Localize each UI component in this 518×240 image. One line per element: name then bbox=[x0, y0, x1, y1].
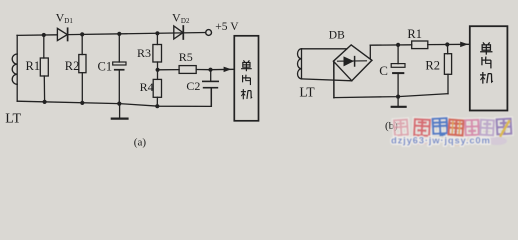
node dot (C top, b) bbox=[396, 43, 400, 47]
glyph 机 (a) bbox=[241, 89, 252, 99]
MCU box (b) bbox=[470, 26, 508, 110]
svg-text:R1: R1 bbox=[407, 27, 422, 41]
resistor R1 bbox=[40, 35, 48, 102]
svg-text:V: V bbox=[172, 10, 181, 24]
svg-text:LT: LT bbox=[5, 111, 21, 126]
glyph 片 (a) bbox=[243, 75, 251, 85]
node dot (R5/C2 junction) bbox=[208, 68, 212, 72]
watermark big char 6 bbox=[480, 120, 494, 136]
svg-text:DB: DB bbox=[329, 30, 345, 42]
node dot (R3/R4/R5 junction) bbox=[156, 68, 160, 72]
svg-text:C1: C1 bbox=[98, 59, 113, 73]
MCU text glyphs (b): 单片机 drawn bbox=[480, 42, 493, 83]
node dot A1 (R1 top) bbox=[42, 33, 46, 37]
resistor R5 bbox=[158, 66, 211, 74]
node dot (C bottom / ground, b) bbox=[396, 95, 400, 99]
svg-text:C: C bbox=[379, 63, 388, 78]
watermark big char 4 (red) bbox=[449, 120, 464, 136]
left wire bbox=[16, 35, 18, 101]
glyph 单 (a) bbox=[241, 60, 252, 71]
watermark big char 1 bbox=[394, 120, 408, 136]
bottom rail bbox=[17, 88, 211, 106]
resistor R3 bbox=[153, 33, 162, 70]
svg-text:C2: C2 bbox=[186, 79, 200, 93]
svg-text:V: V bbox=[56, 10, 65, 24]
svg-text:LT: LT bbox=[299, 85, 315, 100]
node dot (C1 top) bbox=[117, 32, 121, 36]
watermark halo backdrop bbox=[394, 118, 511, 136]
bridge rectifier DB diamond bbox=[333, 45, 372, 81]
watermark big char 5 bbox=[465, 120, 479, 135]
node dot (R2 bottom) bbox=[80, 101, 84, 105]
top rail bbox=[17, 34, 57, 37]
node dot (R1 bottom) bbox=[43, 100, 47, 104]
svg-text:R3: R3 bbox=[137, 46, 151, 60]
wire bridge right vertex to top rail (b) bbox=[370, 45, 372, 60]
node dot (C1 bottom) bbox=[117, 102, 121, 106]
+5V terminal circle bbox=[206, 30, 212, 36]
capacitor C2 bbox=[202, 70, 219, 107]
wire bridge left vertex down to ground rail bbox=[333, 61, 335, 97]
svg-text:R4: R4 bbox=[140, 80, 154, 94]
wire with arrow into MCU (a) bbox=[211, 67, 235, 73]
resistor R1 (b) bbox=[412, 41, 428, 49]
svg-text:+5 V: +5 V bbox=[215, 21, 239, 33]
coil LT (b) bottom line bbox=[302, 79, 352, 81]
capacitor C (b) bbox=[391, 45, 405, 97]
svg-text:R2: R2 bbox=[65, 59, 80, 73]
coil LT (b) top line bbox=[302, 48, 347, 50]
top rail (b) bbox=[370, 43, 469, 46]
watermark big char 7 bbox=[497, 119, 512, 137]
svg-text:D2: D2 bbox=[181, 17, 190, 25]
bottom rail (b) bbox=[334, 94, 448, 98]
bridge inner diode bbox=[338, 56, 367, 66]
svg-text:R1: R1 bbox=[26, 59, 41, 73]
resistor R4 bbox=[153, 70, 161, 106]
inductor LT coil arcs bbox=[12, 54, 17, 84]
paper background bbox=[0, 0, 518, 148]
glyph 片 (b) bbox=[482, 57, 491, 69]
ground (a) bbox=[112, 104, 128, 119]
svg-text:D1: D1 bbox=[64, 17, 73, 25]
node dot (R2 top, b) bbox=[445, 42, 449, 46]
resistor R2 (b) bbox=[444, 45, 451, 94]
node dot (R3 top) bbox=[155, 31, 159, 35]
MCU text glyphs (a): 单片机 drawn bbox=[241, 60, 252, 99]
svg-text:(a): (a) bbox=[134, 136, 147, 148]
node dot (R2 top) bbox=[80, 32, 84, 36]
svg-text:R5: R5 bbox=[179, 50, 193, 64]
glyph 单 (b) bbox=[480, 42, 492, 54]
resistor R2 bbox=[79, 34, 86, 103]
glyph 机 (b) bbox=[480, 72, 493, 84]
watermark big char 2 bbox=[414, 119, 430, 136]
MCU box (a) bbox=[234, 36, 258, 121]
capacitor C1 bbox=[113, 34, 126, 104]
ground (b) bbox=[392, 97, 406, 107]
coil LT (b) left edge + arcs bbox=[297, 49, 301, 79]
diode VD2 bbox=[174, 26, 184, 39]
watermark smudges bbox=[410, 137, 507, 146]
arrow into MCU (b) bbox=[460, 42, 468, 48]
node dot (R4 bottom) bbox=[155, 104, 159, 108]
diode VD1 bbox=[57, 28, 67, 40]
svg-text:dzjy63·jw·jqsy.c0m: dzjy63·jw·jqsy.c0m bbox=[391, 136, 491, 147]
svg-text:R2: R2 bbox=[425, 58, 440, 72]
watermark big char 3 (blue) bbox=[433, 118, 448, 135]
